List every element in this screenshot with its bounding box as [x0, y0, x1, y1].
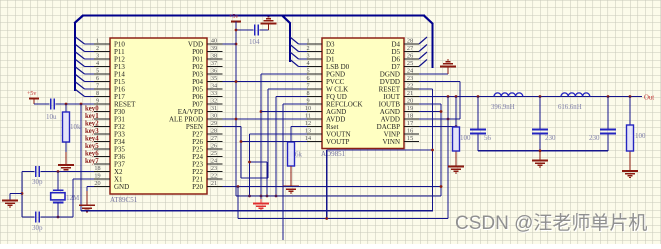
- node junction x249.5 y162: [248, 161, 251, 164]
- label L2 616.6nH: [558, 104, 582, 111]
- wire VOUTP net: [241, 141, 307, 143]
- wire P20 drop to H218.5: [237, 187, 239, 219]
- wire x326.7 vertical: [326, 150, 328, 219]
- svg-text:key4: key4: [85, 136, 99, 143]
- svg-text:17: 17: [407, 120, 413, 127]
- crystal Y1 12M: [51, 190, 65, 202]
- svg-text:P20: P20: [192, 183, 203, 191]
- svg-text:38: 38: [211, 53, 217, 60]
- svg-text:key3: key3: [85, 128, 99, 135]
- capacitor C4 104: [255, 25, 259, 36]
- svg-text:18: 18: [94, 165, 100, 172]
- node junction +5v rail PVCC: [235, 80, 238, 83]
- label 10u: [46, 113, 57, 121]
- svg-text:19: 19: [94, 173, 100, 180]
- node junction VOUTN rail: [266, 195, 269, 198]
- resistor R4 Rset: [288, 142, 295, 166]
- svg-text:35: 35: [211, 75, 217, 82]
- wire C6 stems: [539, 97, 541, 151]
- svg-text:key6: key6: [85, 151, 99, 158]
- wire decoupling branch y30: [236, 29, 269, 31]
- svg-text:+5v: +5v: [27, 91, 36, 97]
- wire U2 RESET pin22 net: [419, 89, 433, 211]
- bus corner top-left: [74, 16, 83, 24]
- svg-text:22: 22: [407, 83, 413, 90]
- wire VDD pin40: [223, 43, 237, 45]
- svg-text:21: 21: [211, 180, 217, 187]
- ground DGND inverted: [440, 60, 456, 67]
- wire C5 stems: [477, 97, 479, 151]
- U2 right pin numbers 28-15: [407, 38, 413, 143]
- svg-text:8: 8: [96, 90, 99, 97]
- U1 right pin names VDD-P20: [169, 41, 204, 192]
- capacitor C5 56: [470, 130, 486, 134]
- wire H150 RESET link: [327, 149, 433, 151]
- power +5v symbol left: [27, 91, 39, 104]
- svg-text:25: 25: [211, 150, 217, 157]
- svg-text:21: 21: [407, 90, 413, 97]
- svg-text:30p: 30p: [32, 224, 43, 232]
- svg-text:18: 18: [407, 113, 413, 120]
- svg-text:27: 27: [407, 45, 413, 52]
- watermark CSDN: [455, 212, 648, 235]
- svg-text:34: 34: [211, 83, 217, 90]
- svg-text:27: 27: [211, 135, 217, 142]
- wire DGND pin24: [419, 67, 448, 75]
- capacitor C2 30p top: [36, 166, 40, 177]
- svg-text:9: 9: [96, 98, 99, 105]
- node junction VDD: [235, 43, 238, 46]
- svg-text:7: 7: [96, 83, 99, 90]
- svg-text:26: 26: [211, 143, 217, 150]
- svg-text:230: 230: [589, 134, 600, 142]
- svg-text:33: 33: [211, 90, 217, 97]
- label 30p bottom: [32, 224, 43, 232]
- ground crystal left: [2, 201, 18, 208]
- ground Rset: [283, 186, 299, 193]
- node junction x448 y119: [447, 118, 450, 121]
- node junction rail ground: [539, 149, 542, 152]
- svg-text:396.9nH: 396.9nH: [491, 104, 515, 111]
- U2 right pin names D4-VINN: [377, 41, 401, 147]
- wire H210.8 rail: [81, 210, 433, 212]
- node junction AGND: [260, 110, 263, 113]
- ground PGND bright red: [253, 204, 269, 211]
- wire rail ground stem: [539, 151, 541, 160]
- bus branch corner to U2 left: [283, 16, 291, 24]
- label 12M: [66, 194, 80, 202]
- label R3 100: [635, 132, 646, 140]
- svg-text:GND: GND: [114, 183, 129, 191]
- ground R2: [448, 167, 464, 174]
- svg-text:15: 15: [407, 135, 413, 142]
- node junction crystal bottom: [57, 216, 60, 219]
- svg-text:25: 25: [407, 60, 413, 67]
- U2 label AD9851: [321, 150, 346, 158]
- wire H196 rail: [236, 195, 441, 197]
- label 104: [249, 38, 260, 46]
- wire x441 vertical IOUTB net: [419, 104, 441, 196]
- wire W_CLK net: [223, 89, 308, 178]
- resistor R2 100: [453, 127, 460, 151]
- svg-text:5: 5: [96, 68, 99, 75]
- wire GND pin drop: [87, 187, 94, 206]
- capacitor C7 230: [600, 130, 616, 134]
- svg-text:19: 19: [407, 105, 413, 112]
- svg-text:104: 104: [249, 38, 260, 46]
- node junction C6 top: [539, 95, 542, 98]
- svg-text:616.6nH: 616.6nH: [558, 104, 582, 111]
- U2 left pin names D3-VOUTP: [326, 41, 363, 147]
- U2 left pin numbers 1-14: [305, 38, 311, 143]
- wire VOUTN net: [250, 134, 308, 196]
- wire AGND pin19 row y111.5: [419, 111, 441, 113]
- bus entries to U2 pins 28-25: [419, 37, 427, 67]
- label 10k: [70, 123, 81, 131]
- bus corner top-right: [424, 16, 433, 24]
- node junction x261 y196: [260, 195, 263, 198]
- U1 right pin numbers 40-21: [211, 38, 217, 188]
- label R2 100: [460, 134, 471, 142]
- svg-text:20: 20: [94, 180, 100, 187]
- bus vertical left of U2: [289, 23, 291, 63]
- svg-text:16: 16: [407, 128, 413, 135]
- wire AVDD row y119: [223, 118, 308, 120]
- wire Rset pin12: [291, 127, 307, 143]
- key0-key7 net labels: [85, 106, 99, 166]
- wire x448 vertical to H218.5: [447, 97, 449, 219]
- svg-text:key5: key5: [85, 143, 99, 150]
- svg-text:39: 39: [211, 45, 217, 52]
- resistor R3 100: [627, 125, 634, 151]
- inductor L1 396.9nH: [494, 93, 523, 97]
- U1 left pin names P10-GND: [114, 41, 136, 192]
- wire crystal top stem: [57, 172, 59, 191]
- svg-text:AD9851: AD9851: [321, 150, 346, 158]
- svg-text:23: 23: [407, 75, 413, 82]
- svg-text:32: 32: [211, 98, 217, 105]
- svg-text:10k: 10k: [70, 123, 81, 131]
- svg-text:24: 24: [211, 158, 217, 165]
- capacitor C3 30p bottom: [36, 212, 40, 223]
- resistor R1 10k: [63, 112, 70, 142]
- bus vertical left of U1: [74, 23, 76, 92]
- node junction C5 top: [477, 95, 480, 98]
- wire bottom cap row y217: [22, 216, 73, 218]
- node junction left rail: [21, 192, 24, 195]
- svg-text:24: 24: [407, 68, 413, 75]
- wire filter bottom rail y151.5: [478, 150, 608, 152]
- bus entries to U1 pins 1-8: [76, 37, 95, 97]
- ground R3: [622, 171, 638, 178]
- ground filter rail: [532, 161, 548, 168]
- wire crystal bottom stem: [57, 203, 59, 217]
- svg-text:AT89C51: AT89C51: [110, 196, 138, 204]
- svg-text:22: 22: [211, 173, 217, 180]
- node junction x441 y111.5: [440, 110, 443, 113]
- node junction RESET H150: [431, 149, 434, 152]
- IC U1 AT89C51 body: [110, 38, 207, 194]
- label C7 230: [589, 134, 600, 142]
- wire X1 row y179 and drop: [73, 179, 94, 217]
- wire C7 stems: [607, 97, 609, 151]
- wire DACBP pin17 to R2 top: [419, 126, 456, 128]
- IC U2 AD9851 body: [322, 38, 404, 149]
- wire left rail x22: [21, 172, 23, 218]
- U1 right pins 40-21 stubs: [207, 44, 223, 187]
- svg-text:37: 37: [211, 60, 217, 67]
- svg-text:key1: key1: [85, 113, 99, 120]
- wire +5v rail x236 down to H196: [235, 22, 237, 197]
- wire P20 row y186.5: [223, 186, 442, 188]
- wire R4 to ground: [290, 166, 292, 186]
- svg-text:10u: 10u: [46, 113, 57, 121]
- svg-text:Out: Out: [644, 95, 654, 102]
- capacitor C6 230: [532, 130, 548, 134]
- svg-text:100: 100: [460, 134, 471, 142]
- wire vertical x81 reset-net to bottom rail: [80, 104, 82, 211]
- U1 label AT89C51: [110, 196, 138, 204]
- svg-text:6: 6: [96, 75, 99, 82]
- wire IOUT filter rail y96.5: [419, 96, 642, 98]
- wire R1 stem: [65, 104, 67, 166]
- svg-text:key0: key0: [85, 106, 99, 113]
- node junction reset-net drop: [80, 103, 83, 106]
- svg-text:31: 31: [211, 105, 217, 112]
- bus entries to U2 pins 1-4: [290, 37, 307, 67]
- wire ground stem up: [268, 24, 270, 31]
- node junction P20 drop: [237, 185, 240, 188]
- node junction crystal top: [57, 170, 60, 173]
- svg-text:6k: 6k: [295, 151, 303, 159]
- label C6 230: [545, 134, 556, 142]
- wire FQ_UD net: [276, 97, 307, 197]
- wire REFCLOCK net: [283, 104, 307, 240]
- label 30p top: [32, 178, 43, 186]
- capacitor C1 10u: [51, 99, 55, 110]
- svg-text:30p: 30p: [32, 178, 43, 186]
- svg-text:key7: key7: [85, 158, 99, 165]
- ground below R1: [58, 165, 74, 172]
- node junction decoupling: [235, 29, 238, 32]
- wire PVCC row y81.5: [223, 81, 308, 83]
- wire X2 row y171.5: [22, 171, 94, 173]
- inductor L2 616.6nH: [561, 93, 590, 97]
- label R4 10k: [295, 151, 303, 159]
- node junction x441 y186.5: [440, 185, 443, 188]
- U2 right pins 28-15 stubs: [404, 44, 419, 142]
- U2 left pins 1-14 stubs: [307, 44, 322, 142]
- svg-text:28: 28: [407, 38, 413, 45]
- svg-text:key2: key2: [85, 121, 99, 128]
- wire AVDD pin18 row y119: [419, 118, 460, 120]
- svg-text:28: 28: [211, 128, 217, 135]
- node junction R1 top: [65, 103, 68, 106]
- svg-text:26: 26: [407, 53, 413, 60]
- svg-text:+5v: +5v: [229, 14, 238, 20]
- svg-text:VINN: VINN: [383, 138, 401, 146]
- node junction C7 top: [607, 95, 610, 98]
- node junction FQ_UD rail: [275, 195, 278, 198]
- wire PGND to ground: [261, 74, 307, 204]
- svg-text:56: 56: [484, 134, 492, 142]
- wire AGND row y111.5: [261, 111, 307, 113]
- U1 left pin numbers 1-20: [94, 38, 100, 188]
- wire RESET row y104: [34, 103, 94, 105]
- svg-text:36: 36: [211, 68, 217, 75]
- node junction H218.5: [325, 217, 328, 220]
- node Out label: [644, 95, 654, 102]
- node junction VOUTP on x241: [240, 140, 243, 143]
- node junction R3 top: [629, 95, 632, 98]
- svg-text:29: 29: [211, 120, 217, 127]
- wire DVDD pin23 down: [419, 82, 460, 120]
- svg-text:100: 100: [635, 132, 646, 140]
- power +5v symbol top: [229, 14, 241, 22]
- ground U1 GND pin: [79, 205, 95, 212]
- wire R2 stems: [455, 97, 457, 167]
- svg-text:40: 40: [211, 38, 217, 45]
- svg-text:VOUTP: VOUTP: [326, 138, 349, 146]
- svg-text:20: 20: [407, 98, 413, 105]
- svg-text:2: 2: [96, 45, 99, 52]
- svg-text:30: 30: [211, 113, 217, 120]
- label C5 56: [484, 134, 492, 142]
- svg-text:3: 3: [96, 53, 99, 60]
- node junction x249.5 y196: [248, 195, 251, 198]
- label L1 396.9nH: [491, 104, 515, 111]
- U1 left pins 1-20 stubs: [94, 44, 110, 187]
- svg-text:23: 23: [211, 165, 217, 172]
- svg-text:1: 1: [96, 38, 99, 45]
- svg-text:230: 230: [545, 134, 556, 142]
- wire R3 stems: [629, 97, 631, 172]
- bus horizontal top: [82, 14, 425, 16]
- svg-text:CSDN @汪老师单片机: CSDN @汪老师单片机: [455, 212, 647, 234]
- node junction R2 top DACBP: [455, 125, 458, 128]
- svg-text:4: 4: [96, 60, 99, 67]
- node junction +5v rail AVDD: [235, 118, 238, 121]
- wire to crystal ground: [10, 194, 22, 201]
- wire H218.5 rail: [238, 218, 448, 220]
- node junction filter drop x448: [447, 95, 450, 98]
- ground top inverted: [261, 17, 277, 24]
- node junction R2 top: [455, 95, 458, 98]
- bus vertical right of U2: [431, 23, 433, 68]
